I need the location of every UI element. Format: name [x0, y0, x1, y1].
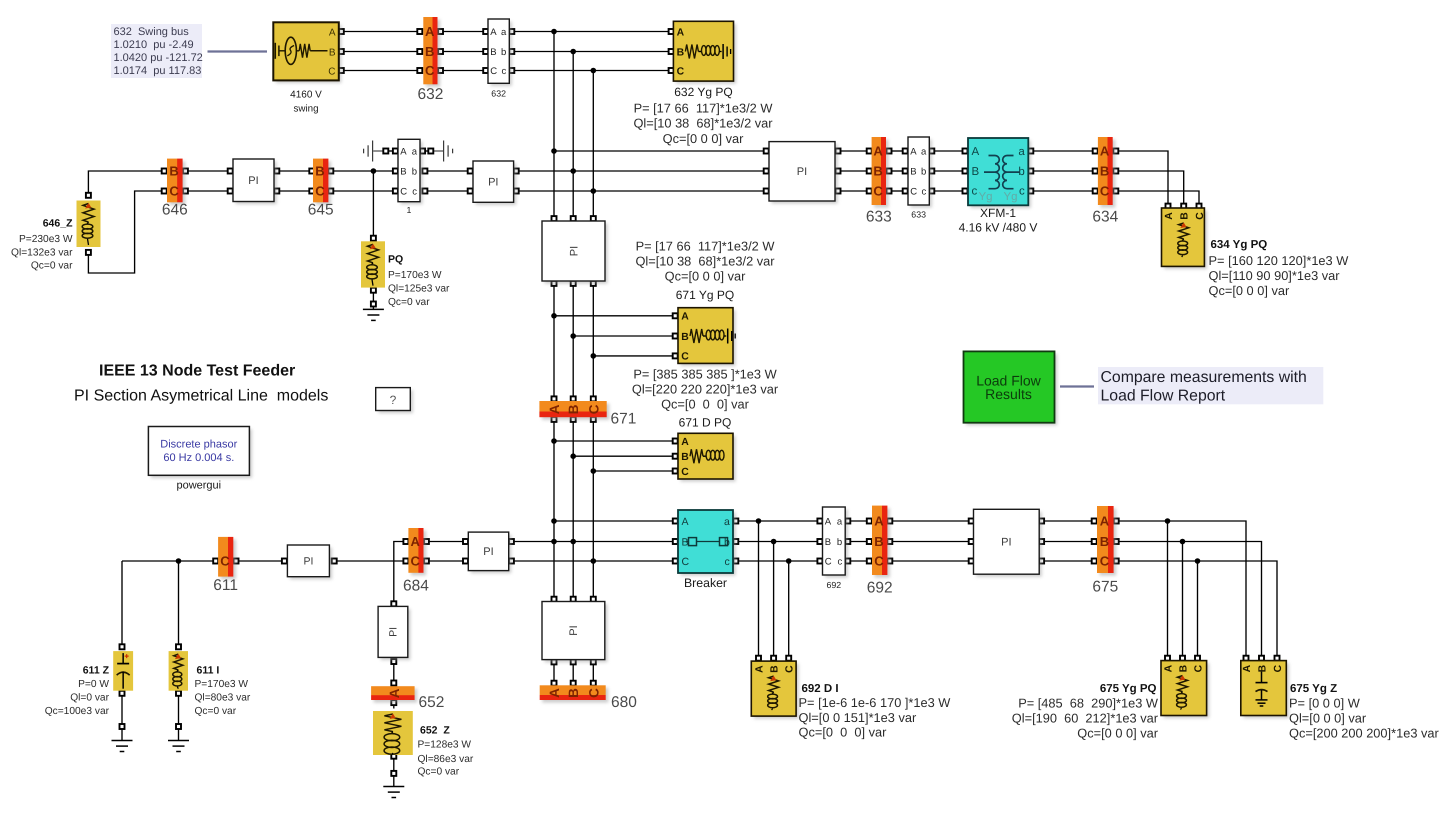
- svg-text:Qc=[0 0 0] var: Qc=[0 0 0] var: [1209, 283, 1290, 298]
- svg-text:671 Yg PQ: 671 Yg PQ: [676, 288, 735, 302]
- svg-text:675 Yg PQ: 675 Yg PQ: [1100, 683, 1157, 695]
- svg-text:A: A: [825, 516, 832, 527]
- svg-text:C: C: [1195, 212, 1206, 220]
- svg-text:B: B: [1100, 164, 1109, 179]
- svg-text:a: a: [724, 516, 730, 528]
- svg-text:B: B: [677, 47, 685, 58]
- svg-text:634 Yg PQ: 634 Yg PQ: [1211, 239, 1268, 251]
- svg-text:Qc=0 var: Qc=0 var: [418, 767, 460, 778]
- svg-text:Ql=[190 60 212]*1e3 var: Ql=[190 60 212]*1e3 var: [1012, 710, 1159, 725]
- svg-text:a: a: [921, 146, 927, 157]
- svg-text:Breaker: Breaker: [684, 576, 727, 590]
- svg-text:PI: PI: [483, 546, 493, 558]
- svg-text:a: a: [501, 27, 507, 38]
- svg-text:633: 633: [911, 210, 926, 220]
- svg-text:C: C: [825, 556, 832, 567]
- svg-text:692: 692: [827, 580, 842, 590]
- svg-text:680: 680: [611, 694, 637, 711]
- svg-text:a: a: [1018, 146, 1025, 158]
- svg-text:PI: PI: [303, 556, 313, 568]
- svg-text:C: C: [490, 66, 497, 77]
- svg-text:671 D PQ: 671 D PQ: [679, 416, 732, 430]
- svg-text:C: C: [681, 352, 689, 363]
- svg-text:P=170e3 W: P=170e3 W: [388, 270, 442, 281]
- svg-text:692 D I: 692 D I: [802, 683, 839, 695]
- svg-text:b: b: [921, 166, 926, 177]
- svg-text:A: A: [972, 146, 980, 158]
- svg-text:A: A: [1100, 514, 1110, 529]
- svg-text:PI: PI: [1001, 537, 1011, 549]
- svg-text:B: B: [566, 404, 581, 414]
- svg-text:A: A: [1163, 664, 1174, 672]
- svg-text:692: 692: [867, 580, 893, 597]
- svg-text:B: B: [1100, 534, 1109, 549]
- svg-text:c: c: [1019, 186, 1025, 198]
- svg-text:C: C: [425, 63, 435, 78]
- svg-text:Ql=[0 0 151]*1e3 var: Ql=[0 0 151]*1e3 var: [799, 710, 917, 725]
- svg-text:C: C: [1100, 554, 1110, 569]
- svg-text:Results: Results: [985, 386, 1032, 402]
- svg-text:C: C: [400, 186, 407, 197]
- svg-text:632 Swing bus: 632 Swing bus: [114, 26, 190, 38]
- svg-text:C: C: [874, 554, 884, 569]
- svg-text:A: A: [490, 27, 497, 38]
- svg-text:B: B: [169, 164, 178, 179]
- svg-text:A: A: [754, 665, 765, 673]
- svg-text:P= [0 0 0] W: P= [0 0 0] W: [1289, 695, 1361, 710]
- svg-text:P= [17 66 117]*1e3/2 W: P= [17 66 117]*1e3/2 W: [636, 238, 776, 253]
- svg-text:Yg: Yg: [1004, 191, 1018, 203]
- svg-text:4160 V: 4160 V: [290, 90, 322, 101]
- svg-text:PI Section Asymetrical Line m: PI Section Asymetrical Line models: [74, 388, 328, 405]
- svg-text:675: 675: [1092, 578, 1118, 595]
- svg-text:C: C: [586, 688, 601, 698]
- svg-text:A: A: [329, 27, 336, 38]
- svg-text:P= [1e-6 1e-6 170 ]*1e3 W: P= [1e-6 1e-6 170 ]*1e3 W: [799, 695, 952, 710]
- svg-text:c: c: [922, 186, 927, 197]
- svg-text:C: C: [873, 184, 883, 199]
- svg-text:C: C: [328, 66, 335, 77]
- svg-text:611 Z: 611 Z: [83, 665, 110, 677]
- svg-text:Compare measurements with: Compare measurements with: [1101, 369, 1307, 386]
- svg-text:Qc=0 var: Qc=0 var: [195, 706, 237, 717]
- svg-text:B: B: [400, 166, 406, 177]
- svg-text:A: A: [681, 437, 689, 448]
- svg-text:632: 632: [491, 88, 506, 98]
- svg-text:PQ: PQ: [388, 254, 403, 266]
- svg-text:A: A: [874, 514, 884, 529]
- svg-text:c: c: [972, 186, 978, 198]
- svg-text:652: 652: [419, 694, 445, 711]
- svg-text:Ql=[10 38 68]*1e3/2 var: Ql=[10 38 68]*1e3/2 var: [635, 253, 775, 268]
- svg-text:B: B: [1257, 664, 1268, 672]
- svg-text:B: B: [873, 164, 882, 179]
- svg-text:B: B: [972, 166, 980, 178]
- svg-text:PI: PI: [388, 627, 400, 637]
- svg-text:b: b: [412, 166, 417, 177]
- svg-text:Ql=132e3 var: Ql=132e3 var: [11, 248, 73, 259]
- svg-text:646_Z: 646_Z: [43, 218, 73, 230]
- svg-text:Qc=[0 0 0] var: Qc=[0 0 0] var: [661, 396, 750, 411]
- svg-text:A: A: [1100, 144, 1110, 159]
- svg-text:?: ?: [390, 393, 397, 407]
- svg-text:swing: swing: [293, 104, 318, 115]
- svg-text:Ql=[110 90 90]*1e3 var: Ql=[110 90 90]*1e3 var: [1209, 268, 1341, 283]
- svg-text:B: B: [490, 47, 496, 58]
- svg-text:B: B: [825, 537, 831, 548]
- svg-text:B: B: [681, 332, 689, 343]
- svg-text:Qc=100e3 var: Qc=100e3 var: [45, 706, 110, 717]
- svg-text:C: C: [1273, 664, 1284, 672]
- svg-text:634: 634: [1092, 209, 1118, 226]
- svg-text:Qc=[0 0 0] var: Qc=[0 0 0] var: [1077, 726, 1158, 741]
- svg-text:Qc=[0 0 0] var: Qc=[0 0 0] var: [663, 131, 744, 146]
- svg-text:PI: PI: [568, 625, 580, 635]
- svg-text:C: C: [785, 665, 796, 673]
- svg-text:C: C: [410, 554, 420, 569]
- svg-text:B: B: [769, 665, 780, 673]
- svg-text:A: A: [873, 144, 883, 159]
- svg-text:C: C: [677, 66, 685, 77]
- svg-text:Qc=0 var: Qc=0 var: [388, 297, 430, 308]
- svg-text:A: A: [547, 688, 562, 698]
- svg-text:B: B: [566, 688, 581, 698]
- svg-text:645: 645: [308, 202, 334, 219]
- svg-text:P=0 W: P=0 W: [78, 679, 109, 690]
- svg-text:P=128e3 W: P=128e3 W: [418, 740, 472, 751]
- svg-text:C: C: [682, 556, 690, 568]
- svg-text:P= [160 120 120]*1e3 W: P= [160 120 120]*1e3 W: [1209, 253, 1350, 268]
- svg-text:B: B: [1180, 212, 1191, 220]
- svg-text:C: C: [169, 184, 179, 199]
- svg-text:a: a: [837, 516, 843, 527]
- svg-text:IEEE 13 Node Test Feeder: IEEE 13 Node Test Feeder: [99, 363, 295, 380]
- svg-text:PI: PI: [488, 177, 498, 189]
- svg-text:Qc=[0 0 0] var: Qc=[0 0 0] var: [799, 725, 888, 740]
- svg-text:Ql=[10 38 68]*1e3/2 var: Ql=[10 38 68]*1e3/2 var: [633, 116, 773, 131]
- svg-text:C: C: [910, 186, 917, 197]
- svg-text:A: A: [400, 146, 407, 157]
- svg-text:Ql=0 var: Ql=0 var: [70, 693, 109, 704]
- svg-text:c: c: [837, 556, 842, 567]
- svg-text:Qc=[0 0 0] var: Qc=[0 0 0] var: [665, 268, 746, 283]
- svg-text:A: A: [681, 312, 689, 323]
- svg-text:A: A: [1164, 212, 1175, 220]
- svg-text:Ql=125e3 var: Ql=125e3 var: [388, 284, 450, 295]
- svg-text:P= [17 66 117]*1e3/2 W: P= [17 66 117]*1e3/2 W: [634, 100, 774, 115]
- svg-text:C: C: [681, 467, 689, 478]
- svg-text:A: A: [387, 688, 402, 698]
- svg-text:Ql=86e3 var: Ql=86e3 var: [418, 754, 474, 765]
- svg-text:c: c: [412, 186, 417, 197]
- svg-text:632 Yg PQ: 632 Yg PQ: [674, 85, 733, 99]
- svg-text:1.0174 pu 117.83: 1.0174 pu 117.83: [114, 65, 202, 77]
- svg-text:4.16 kV /480 V: 4.16 kV /480 V: [959, 221, 1038, 235]
- svg-text:PI: PI: [797, 166, 807, 178]
- svg-text:A: A: [410, 534, 420, 549]
- svg-text:B: B: [315, 164, 324, 179]
- svg-text:1: 1: [407, 205, 412, 215]
- svg-text:A: A: [425, 24, 435, 39]
- svg-text:PI: PI: [568, 246, 580, 256]
- svg-text:Discrete phasor: Discrete phasor: [160, 438, 237, 450]
- svg-text:P=230e3 W: P=230e3 W: [19, 234, 73, 245]
- svg-text:60 Hz 0.004 s.: 60 Hz 0.004 s.: [163, 452, 234, 464]
- svg-text:B: B: [681, 452, 689, 463]
- svg-text:A: A: [910, 146, 917, 157]
- svg-text:A: A: [1242, 664, 1253, 672]
- svg-text:Load Flow Report: Load Flow Report: [1101, 387, 1226, 404]
- svg-text:C: C: [1100, 184, 1110, 199]
- svg-text:1.0210 pu -2.49: 1.0210 pu -2.49: [114, 39, 194, 51]
- svg-text:c: c: [725, 556, 730, 568]
- svg-text:C: C: [1193, 664, 1204, 672]
- svg-text:powergui: powergui: [176, 480, 221, 492]
- svg-text:684: 684: [403, 578, 429, 595]
- svg-text:B: B: [329, 47, 336, 58]
- svg-text:646: 646: [162, 202, 188, 219]
- svg-text:c: c: [502, 66, 507, 77]
- svg-text:Yg: Yg: [979, 191, 993, 203]
- svg-text:A: A: [547, 404, 562, 414]
- svg-text:B: B: [910, 166, 916, 177]
- svg-text:C: C: [220, 554, 230, 569]
- svg-text:675 Yg Z: 675 Yg Z: [1290, 683, 1337, 695]
- svg-text:1.0420 pu -121.72: 1.0420 pu -121.72: [114, 52, 203, 64]
- svg-text:B: B: [1178, 664, 1189, 672]
- svg-text:C: C: [586, 404, 601, 414]
- svg-text:A: A: [677, 27, 685, 38]
- svg-text:XFM-1: XFM-1: [980, 206, 1016, 220]
- svg-text:PI: PI: [248, 175, 258, 187]
- svg-text:P= [485 68 290]*1e3 W: P= [485 68 290]*1e3 W: [1018, 695, 1159, 710]
- svg-text:Qc=[200 200 200]*1e3 var: Qc=[200 200 200]*1e3 var: [1289, 726, 1440, 741]
- svg-text:Ql=80e3 var: Ql=80e3 var: [195, 693, 251, 704]
- svg-text:b: b: [837, 537, 842, 548]
- svg-text:a: a: [412, 146, 418, 157]
- svg-text:Ql=[0 0 0] var: Ql=[0 0 0] var: [1289, 710, 1367, 725]
- svg-text:A: A: [682, 516, 689, 528]
- svg-text:633: 633: [866, 209, 892, 226]
- svg-text:C: C: [315, 184, 325, 199]
- svg-text:B: B: [874, 534, 883, 549]
- svg-text:P= [385 385 385 ]*1e3 W: P= [385 385 385 ]*1e3 W: [633, 367, 777, 382]
- svg-text:652 Z: 652 Z: [420, 724, 450, 736]
- svg-text:B: B: [425, 44, 434, 59]
- svg-text:Qc=0 var: Qc=0 var: [31, 261, 73, 272]
- svg-text:Ql=[220 220 220]*1e3 var: Ql=[220 220 220]*1e3 var: [632, 381, 779, 396]
- svg-text:611: 611: [213, 577, 238, 594]
- svg-text:B: B: [682, 536, 689, 548]
- svg-text:611 I: 611 I: [197, 665, 220, 677]
- svg-text:632: 632: [417, 86, 443, 103]
- svg-text:671: 671: [611, 410, 637, 427]
- svg-text:b: b: [501, 47, 506, 58]
- svg-text:P=170e3 W: P=170e3 W: [195, 679, 249, 690]
